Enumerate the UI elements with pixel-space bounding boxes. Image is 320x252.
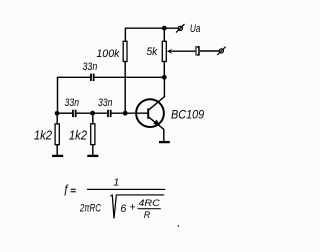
resistor R1 100k body — [123, 41, 127, 61]
formula: main fraction bar — [87, 189, 165, 190]
wire: 100k top lead — [124, 28, 126, 42]
svg-text:2πRC: 2πRC — [79, 203, 101, 215]
wire: 100k bottom lead — [124, 62, 126, 113]
junction: 5k bottom / collector / feedback — [162, 75, 167, 80]
formula: radical overline — [116, 194, 164, 195]
junction: rail / 5k top — [162, 26, 167, 31]
potentiometer R2 5k body — [162, 41, 166, 61]
formula: inner fraction bar — [138, 208, 161, 209]
junction C — [123, 111, 128, 116]
svg-text:4RC: 4RC — [139, 198, 160, 209]
junction B — [90, 111, 95, 116]
svg-text:BC109: BC109 — [171, 109, 205, 121]
formula: equals sign — [71, 189, 76, 193]
resistor R4 1k2 (right) with leads — [91, 113, 95, 155]
wire: supply top rail — [125, 27, 178, 29]
formula: radical sign — [111, 195, 117, 219]
svg-text:33n: 33n — [98, 97, 112, 109]
terminal Ua — [176, 24, 185, 33]
wire: emitter with bend — [149, 117, 164, 141]
terminal output — [217, 47, 225, 55]
svg-text:1: 1 — [113, 176, 119, 188]
wire: 5k bottom lead — [163, 62, 165, 78]
resistor R3 1k2 (left) with leads — [55, 113, 59, 155]
pot wiper arrow — [167, 49, 172, 54]
transistor Q1 body — [136, 99, 164, 127]
svg-text:ƒ: ƒ — [63, 184, 69, 196]
wire: base row C2 to C3 — [76, 112, 107, 114]
svg-text:33n: 33n — [65, 97, 79, 109]
svg-text:1k2: 1k2 — [34, 128, 52, 143]
wire: wiper to capacitor — [171, 50, 195, 52]
svg-text:1k2: 1k2 — [69, 128, 87, 143]
svg-text:6: 6 — [120, 203, 126, 215]
svg-text:+: + — [129, 202, 135, 214]
capacitor C3 33n — [108, 110, 111, 117]
svg-text:33n: 33n — [83, 61, 98, 73]
svg-text:100k: 100k — [96, 48, 120, 60]
ground G1 — [52, 155, 63, 157]
wire: base row C3 to base — [111, 112, 147, 114]
ground G2 — [87, 155, 98, 157]
capacitor C4 output coupling — [196, 46, 199, 56]
emitter arrowhead — [153, 120, 160, 126]
ground G3 emitter — [159, 141, 170, 143]
svg-text:R: R — [144, 210, 151, 221]
wire: base row A to C2 — [58, 112, 73, 114]
wire: collector — [149, 77, 165, 110]
wire: capacitor to output terminal — [200, 50, 220, 52]
stray dot — [178, 225, 180, 227]
wire: feedback row right — [94, 76, 162, 78]
junction A — [55, 111, 60, 116]
wire: 5k top lead — [163, 28, 165, 41]
capacitor C2 33n — [73, 110, 76, 117]
svg-text:Ua: Ua — [190, 23, 201, 35]
wire: feedback row left + corner down — [58, 77, 91, 113]
capacitor C1 33n feedback — [91, 74, 94, 81]
svg-text:5k: 5k — [147, 46, 159, 58]
